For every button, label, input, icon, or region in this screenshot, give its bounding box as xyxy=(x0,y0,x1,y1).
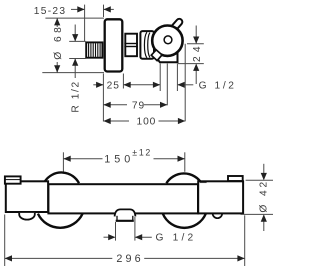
threaded nipple R1/2 xyxy=(86,42,102,57)
svg-text:±12: ±12 xyxy=(132,148,152,158)
left block (valve end) xyxy=(6,181,48,212)
svg-text:15-23: 15-23 xyxy=(34,6,67,17)
dimension R1/2 xyxy=(69,25,85,79)
handle step line xyxy=(200,182,207,184)
right escutcheon bottom arc xyxy=(163,214,206,228)
svg-text:Ø 42: Ø 42 xyxy=(259,179,270,213)
left tab cap xyxy=(5,176,21,183)
dimension 100 xyxy=(103,120,185,122)
dimension G1/2 bottom xyxy=(104,217,152,241)
dimension 79 xyxy=(103,104,167,106)
svg-text:79: 79 xyxy=(132,101,145,112)
svg-text:2 4: 2 4 xyxy=(192,46,203,62)
right handle section xyxy=(198,181,243,213)
svg-text:25: 25 xyxy=(107,81,120,92)
escutcheon body side view xyxy=(105,19,123,71)
handle circle front view xyxy=(152,26,182,56)
outlet housing below handle xyxy=(156,50,178,62)
bar body front view xyxy=(48,184,198,213)
left escutcheon top arc xyxy=(45,172,79,183)
right small bump under handle xyxy=(213,213,223,218)
svg-text:150: 150 xyxy=(104,153,134,165)
dimension 15-23 arrows xyxy=(77,6,111,12)
dimension 15-23 lines xyxy=(71,5,114,41)
dimension Ø42 xyxy=(241,164,274,231)
handle inner circle xyxy=(164,36,172,44)
dimension 150±12 xyxy=(63,152,184,173)
svg-text:296: 296 xyxy=(116,253,143,265)
svg-text:G 1/2: G 1/2 xyxy=(156,233,197,244)
hex nut side view xyxy=(124,34,137,57)
svg-text:R 1/2: R 1/2 xyxy=(71,80,82,112)
svg-text:100: 100 xyxy=(137,117,157,128)
center outlet dome G1/2 xyxy=(115,209,136,216)
dimension 24 xyxy=(178,26,204,122)
svg-text:G 1/2: G 1/2 xyxy=(199,80,237,91)
right escutcheon top arc xyxy=(166,173,201,183)
left drain bump xyxy=(19,213,35,220)
right button on handle xyxy=(228,176,243,181)
valve flange behind handle xyxy=(140,31,154,59)
temperature stub knob xyxy=(170,19,182,32)
dimension 25 + G1/2 row xyxy=(93,64,193,122)
dimension 296 xyxy=(5,215,245,267)
volume lever diamond xyxy=(151,50,162,61)
dimension Ø68 xyxy=(42,18,104,73)
left escutcheon bottom arc xyxy=(38,214,83,228)
svg-text:Ø 68: Ø 68 xyxy=(53,24,64,60)
